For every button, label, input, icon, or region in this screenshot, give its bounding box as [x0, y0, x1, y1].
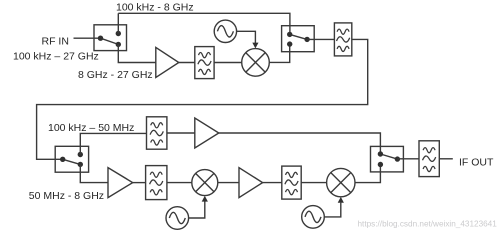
wire F2 down-left long route to switch S3: [37, 39, 368, 159]
wire S4 to filter F6: [397, 158, 419, 160]
filter F3: [147, 117, 167, 149]
svg-text:RF IN: RF IN: [42, 36, 69, 48]
amplifier A1: [156, 47, 179, 77]
wire RF IN to switch S1: [74, 37, 101, 39]
wire F4 to mixer M2: [167, 182, 192, 184]
mixer M2: [192, 170, 218, 196]
filter F1: [195, 47, 214, 79]
wire M2 to amplifier A4: [218, 182, 239, 184]
filter F2: [334, 23, 351, 56]
switch S3: [55, 146, 88, 172]
mixer M3: [327, 168, 355, 196]
wire A1 to filter F1: [179, 62, 195, 64]
oscillator LO2: [166, 207, 189, 230]
wire F5 to mixer M3: [301, 182, 326, 184]
filter F5: [282, 166, 301, 199]
wire S3 bottom throw to amplifier A3: [80, 164, 108, 182]
amplifier A4: [239, 168, 263, 198]
wire LO1 to mixer M1 (arrow): [237, 31, 256, 43]
wire LO2 to mixer M2 (arrow): [189, 201, 205, 218]
svg-text:8 GHz - 27 GHz: 8 GHz - 27 GHz: [78, 69, 153, 81]
wire A3 to filter F4: [133, 182, 146, 184]
wire F1 to mixer M1: [214, 62, 242, 64]
wire LO3 to mixer M3 (arrow): [324, 203, 341, 217]
wire S1 top throw up to bypass rail: [117, 13, 119, 33]
oscillator LO1: [214, 20, 236, 42]
wire S3 top throw to filter F3: [80, 133, 146, 154]
svg-text:IF OUT: IF OUT: [459, 156, 494, 168]
filter F6: [419, 141, 439, 177]
svg-text:50 MHz - 8 GHz: 50 MHz - 8 GHz: [29, 190, 104, 202]
svg-text:100 kHz – 50 MHz: 100 kHz – 50 MHz: [48, 122, 134, 134]
svg-text:100 kHz – 27 GHz: 100 kHz – 27 GHz: [13, 50, 99, 62]
wire F3 to amplifier A2: [167, 132, 195, 134]
wire A2 to switch S4 top throw: [219, 133, 381, 154]
switch S4: [371, 146, 404, 172]
svg-text:https://blog.csdn.net/weixin_4: https://blog.csdn.net/weixin_43123641: [358, 220, 498, 229]
mixer M1: [242, 49, 270, 77]
switch S2: [282, 26, 315, 52]
amplifier A3: [108, 168, 133, 198]
wire bypass rail (top): [118, 13, 290, 34]
wire S2 to filter F2: [307, 38, 334, 40]
wire M3 up to switch S4 bottom throw: [355, 165, 380, 183]
wire S1 bottom throw down and to amplifier A1: [118, 44, 156, 62]
switch S1: [94, 25, 127, 51]
filter F4: [146, 166, 167, 200]
oscillator LO3: [302, 206, 325, 229]
wire M1 up to switch S2: [269, 44, 289, 62]
amplifier A2: [195, 118, 219, 148]
wire A4 to filter F5: [263, 182, 282, 184]
svg-text:100 kHz - 8 GHz: 100 kHz - 8 GHz: [116, 2, 194, 14]
wire F6 to IF OUT: [439, 158, 453, 160]
